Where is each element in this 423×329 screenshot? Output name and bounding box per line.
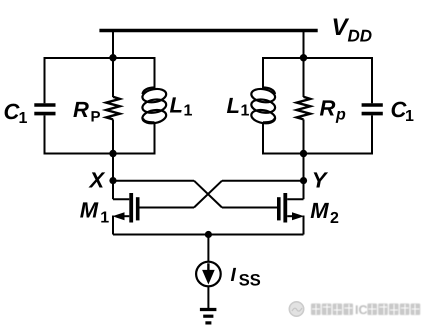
label M1 [80, 197, 110, 226]
wire tail node [113, 234, 304, 236]
wire crossing to M2 gate [222, 207, 277, 209]
resistor Rp (right) [297, 57, 311, 155]
label RP (left) [73, 97, 101, 126]
wire M1 gate to crossing [140, 207, 195, 209]
label VDD [332, 14, 373, 46]
svg-text:Y: Y [312, 168, 329, 193]
junction dot rail left [109, 54, 116, 61]
capacitor C1 (left) [34, 57, 55, 155]
wire right tank bottom edge [263, 153, 372, 155]
label ISS [231, 265, 261, 290]
svg-text:R: R [320, 96, 336, 121]
wire node X to crossing [113, 180, 194, 182]
junction dot tail [205, 231, 212, 238]
wire rail to left tank [112, 31, 114, 58]
label C1 (right) [391, 97, 415, 125]
junction dot left tank bottom [109, 150, 116, 157]
svg-text:R: R [73, 97, 89, 122]
VDD supply rail [99, 29, 317, 33]
wire rail to right tank [303, 31, 305, 58]
svg-text:1: 1 [241, 103, 250, 120]
transistor M2 [277, 193, 304, 235]
wire left tank to node X to M1 drain [112, 154, 114, 200]
junction dot rail right [300, 54, 307, 61]
label M2 [310, 198, 339, 227]
label Rp (right) [320, 96, 347, 124]
watermark logo icon [289, 302, 303, 316]
inductor L1 (right) [250, 57, 276, 155]
svg-text:1: 1 [405, 108, 414, 125]
wire left tank bottom edge [45, 153, 155, 155]
svg-text:IC: IC [355, 303, 368, 317]
wire left tank top edge [45, 57, 155, 59]
svg-text:SS: SS [239, 272, 261, 290]
node X junction dot [109, 177, 116, 184]
wire crossing diagonal M1 gate to node Y [194, 181, 222, 208]
inductor L1 (left) [141, 57, 167, 155]
junction dot right tank bottom [300, 150, 307, 157]
wire current source to ground [207, 287, 209, 309]
svg-text:1: 1 [19, 110, 28, 127]
svg-text:L: L [170, 93, 183, 118]
node Y junction dot [300, 177, 307, 184]
svg-text:L: L [227, 93, 240, 118]
transistor M1 [112, 193, 139, 235]
wire right tank top edge [263, 57, 372, 59]
svg-text:P: P [91, 109, 101, 126]
watermark text 模拟射频IC学习加油站 [311, 303, 420, 317]
svg-text:2: 2 [330, 210, 339, 227]
svg-text:X: X [88, 168, 106, 193]
svg-text:1: 1 [100, 210, 109, 227]
svg-text:M: M [80, 197, 99, 222]
svg-text:p: p [335, 107, 346, 124]
wire right tank to node Y to M2 drain [303, 154, 305, 200]
label L1 (left) [170, 93, 193, 120]
svg-text:DD: DD [348, 27, 373, 46]
wire node Y to crossing [222, 180, 304, 182]
svg-text:1: 1 [184, 103, 193, 120]
label L1 (right) [227, 93, 250, 120]
current source ISS [196, 262, 221, 287]
label C1 (left) [4, 99, 28, 127]
ground [200, 310, 217, 323]
wire crossing diagonal X to M2 gate [194, 181, 222, 208]
wire tail to current source [207, 235, 209, 262]
capacitor C1 (right) [362, 57, 383, 155]
svg-text:I: I [231, 265, 237, 286]
resistor RP (left) [106, 57, 120, 155]
svg-text:M: M [310, 198, 329, 223]
